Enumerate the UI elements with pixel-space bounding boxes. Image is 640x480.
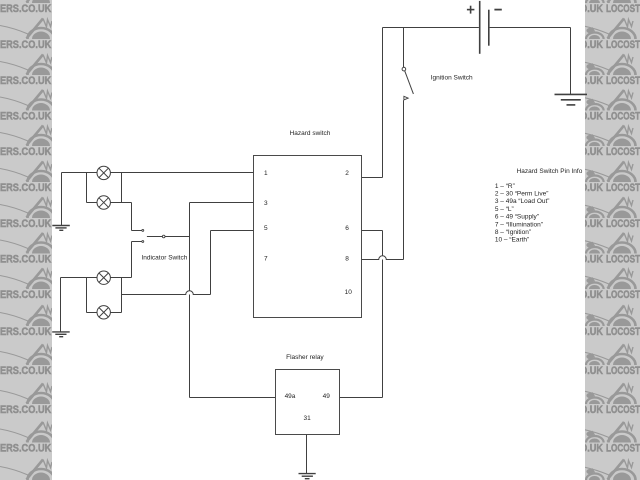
indicator switch SW2 lower contact [132, 241, 144, 243]
svg-text:6 – 49 “Supply”: 6 – 49 “Supply” [495, 214, 539, 221]
svg-text:LOCOSTB: LOCOSTB [606, 218, 640, 230]
wire pin 5 down [210, 231, 212, 295]
ground flasher relay [299, 474, 316, 479]
wire ignition switch feed [403, 28, 405, 68]
svg-text:5: 5 [264, 225, 268, 232]
lamp L3 [97, 271, 110, 284]
svg-text:LOCOSTB: LOCOSTB [606, 442, 640, 454]
wire lamp L2 right [110, 202, 131, 204]
wire ignition switch to hazard pin 8 [403, 100, 405, 259]
wire lamp group 2 feed [61, 277, 98, 279]
ground top left lamps [52, 226, 70, 231]
wire battery negative to ground [490, 27, 571, 29]
wire hazard pin 3 [190, 202, 254, 204]
wire upper contact to right lamp pair [131, 203, 133, 231]
wire hazard pin 6 [361, 230, 383, 232]
svg-text:DERS.CO.UK: DERS.CO.UK [0, 3, 51, 15]
svg-text:DERS.CO.UK: DERS.CO.UK [0, 75, 51, 87]
wire parallel left bottom [86, 278, 88, 313]
svg-text:7 – “Illumination”: 7 – “Illumination” [495, 221, 543, 228]
wire hazard pin 5 [211, 230, 254, 232]
watermark strip left [0, 0, 55, 480]
lamp L2 [97, 196, 110, 209]
svg-text:DERS.CO.UK: DERS.CO.UK [0, 404, 51, 416]
svg-text:LOCOSTB: LOCOSTB [606, 404, 640, 416]
wire lamp group 1 feed [62, 172, 98, 174]
ground bottom left lamps [52, 332, 69, 337]
wire to ground top left [61, 173, 63, 226]
svg-text:3 – 49a “Load Out”: 3 – 49a “Load Out” [495, 198, 550, 205]
ground battery chassis [555, 94, 588, 105]
svg-text:DERS.CO.UK: DERS.CO.UK [0, 326, 51, 338]
svg-text:DERS.CO.UK: DERS.CO.UK [0, 289, 51, 301]
battery - label [494, 9, 501, 11]
watermark strip right [574, 0, 640, 480]
svg-text:LOCOSTB: LOCOSTB [606, 326, 640, 338]
wire parallel right top [121, 173, 123, 203]
svg-text:LOCOSTB: LOCOSTB [606, 3, 640, 15]
lamp L1 [97, 166, 110, 179]
wire lamp L2 left [87, 202, 98, 204]
svg-text:8 – “Ignition”: 8 – “Ignition” [495, 229, 531, 236]
svg-text:LOCOSTB: LOCOSTB [606, 146, 640, 158]
svg-text:49: 49 [323, 393, 331, 400]
svg-text:1 – “R”: 1 – “R” [495, 183, 515, 190]
wire down to chassis ground [570, 28, 572, 95]
wire lower contact to left lamp pair [131, 242, 133, 278]
svg-text:Hazard switch: Hazard switch [290, 130, 331, 137]
lamp L4 [97, 306, 110, 319]
wire battery feed down to hazard pin 2 [382, 28, 384, 178]
svg-text:7: 7 [264, 256, 268, 263]
hazard switch U1 body [254, 156, 362, 318]
svg-text:5 – “L”: 5 – “L” [495, 206, 514, 213]
svg-text:8: 8 [345, 256, 349, 263]
battery BT1 [480, 1, 489, 54]
svg-text:2: 2 [345, 170, 349, 177]
svg-text:LOCOSTB: LOCOSTB [606, 253, 640, 265]
svg-text:LOCOSTB: LOCOSTB [606, 39, 640, 51]
wire hazard pin 1 to right lamps [110, 172, 253, 174]
battery + label [467, 6, 475, 14]
flasher relay K1 body [276, 370, 340, 435]
svg-text:DERS.CO.UK: DERS.CO.UK [0, 110, 51, 122]
svg-text:1: 1 [264, 170, 268, 177]
svg-text:DERS.CO.UK: DERS.CO.UK [0, 218, 51, 230]
svg-text:Flasher relay: Flasher relay [286, 354, 324, 361]
wire flasher 31 to ground [306, 435, 308, 474]
indicator switch SW2 pole and blade [147, 235, 190, 238]
indicator switch SW2 upper contact [132, 229, 144, 231]
wire left lamps to pin 5 with hop [122, 291, 211, 295]
wire lamp group 2 to pin 5 junction [110, 277, 131, 279]
svg-text:31: 31 [303, 415, 311, 422]
svg-text:Ignition Switch: Ignition Switch [431, 74, 473, 81]
svg-text:3: 3 [264, 200, 268, 207]
wire hazard pin 8 with hop [361, 256, 404, 260]
svg-text:LOCOSTB: LOCOSTB [606, 365, 640, 377]
svg-text:DERS.CO.UK: DERS.CO.UK [0, 182, 51, 194]
svg-text:LOCOSTB: LOCOSTB [606, 110, 640, 122]
wire parallel left top [86, 173, 88, 203]
wire lamp L4 left [87, 312, 98, 314]
wire pin 3 down to flasher 49a [189, 203, 191, 398]
wire lamp3 to lower contact riser [131, 242, 133, 278]
wire pin 6 down to flasher 49 [382, 231, 384, 398]
wire to ground bottom left [60, 278, 62, 332]
svg-text:LOCOSTB: LOCOSTB [606, 289, 640, 301]
svg-text:49a: 49a [285, 393, 296, 400]
wire battery positive to ignition feed [383, 27, 479, 29]
wire lamp L4 right [110, 312, 121, 314]
wire flasher 49a [190, 397, 276, 399]
svg-text:LOCOSTB: LOCOSTB [606, 75, 640, 87]
wire parallel right bottom [121, 278, 123, 313]
svg-text:Hazard Switch Pin Info: Hazard Switch Pin Info [517, 168, 583, 175]
svg-text:DERS.CO.UK: DERS.CO.UK [0, 365, 51, 377]
wire flasher 49 [340, 397, 383, 399]
svg-text:DERS.CO.UK: DERS.CO.UK [0, 146, 51, 158]
ignition switch SW1 [402, 67, 413, 100]
svg-text:DERS.CO.UK: DERS.CO.UK [0, 253, 51, 265]
svg-text:10 – “Earth”: 10 – “Earth” [495, 237, 529, 244]
wire hazard pin 2 [361, 177, 383, 179]
svg-text:DERS.CO.UK: DERS.CO.UK [0, 442, 51, 454]
svg-text:2 – 30 “Perm Live”: 2 – 30 “Perm Live” [495, 191, 548, 198]
svg-text:10: 10 [345, 289, 353, 296]
svg-text:6: 6 [345, 225, 349, 232]
svg-text:LOCOSTB: LOCOSTB [606, 182, 640, 194]
svg-text:Indicator Switch: Indicator Switch [141, 254, 187, 261]
svg-text:DERS.CO.UK: DERS.CO.UK [0, 39, 51, 51]
